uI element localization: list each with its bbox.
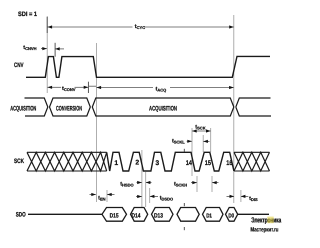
svg-text:D0: D0 [228, 212, 234, 219]
svg-text:Мастеркит.ru: Мастеркит.ru [250, 226, 278, 233]
svg-text:SDO: SDO [16, 212, 26, 219]
svg-text:tSCKL: tSCKL [172, 138, 185, 144]
svg-text:16: 16 [226, 160, 232, 167]
svg-text:tSCK: tSCK [195, 125, 205, 131]
svg-text:tHSDO: tHSDO [120, 182, 133, 188]
svg-text:D15: D15 [110, 213, 119, 220]
svg-text:tDSDO: tDSDO [160, 196, 173, 202]
svg-text:tACQ: tACQ [156, 87, 167, 93]
svg-text:tCONV: tCONV [62, 86, 76, 92]
svg-text:D13: D13 [154, 213, 163, 220]
svg-text:D1: D1 [206, 212, 212, 219]
svg-text:tCNVH: tCNVH [23, 45, 36, 51]
svg-text:CNV: CNV [14, 62, 24, 69]
svg-text:SCK: SCK [14, 158, 24, 165]
svg-text:Электроника: Электроника [251, 215, 282, 224]
svg-text:1: 1 [114, 160, 118, 167]
svg-text:D14: D14 [132, 213, 141, 220]
svg-text:tEN: tEN [98, 196, 106, 202]
svg-text:tDIS: tDIS [249, 196, 258, 202]
svg-text:15: 15 [205, 160, 211, 167]
svg-text:tSCKH: tSCKH [174, 182, 187, 188]
svg-text:ACQUISITION: ACQUISITION [149, 106, 177, 113]
svg-text:ACQUISITION: ACQUISITION [10, 106, 36, 113]
svg-text:2: 2 [135, 159, 139, 166]
svg-text:SDI = 1: SDI = 1 [18, 11, 37, 18]
svg-text:3: 3 [155, 160, 159, 167]
svg-text:14: 14 [186, 160, 192, 167]
svg-text:CONVERSION: CONVERSION [56, 106, 82, 113]
svg-text:tCYC: tCYC [135, 24, 145, 30]
